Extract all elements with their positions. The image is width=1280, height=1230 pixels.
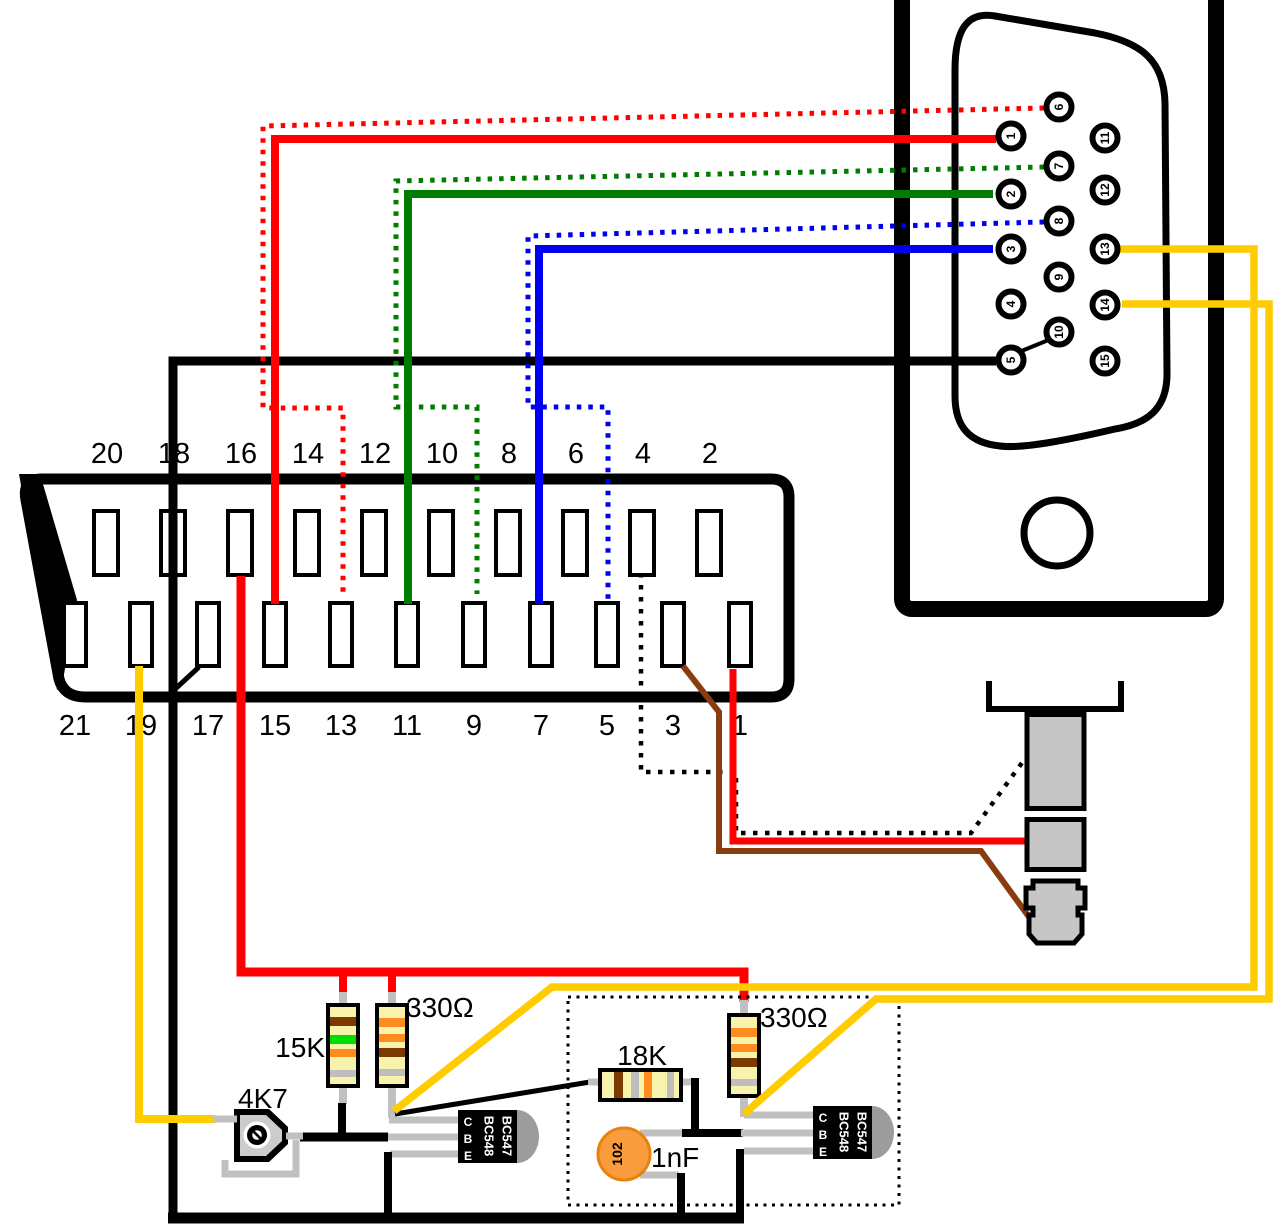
SCART pin 19 <box>130 603 152 666</box>
lead: 15K top <box>339 992 347 1007</box>
lead: 330R-B top <box>740 1000 748 1017</box>
VGA pin 3 <box>999 237 1024 262</box>
svg-text:3: 3 <box>1004 245 1018 252</box>
VGA pin 12 <box>1093 178 1118 203</box>
svg-text:2: 2 <box>1004 190 1018 197</box>
VGA pin 10 <box>1047 320 1072 345</box>
svg-text:20: 20 <box>91 438 123 470</box>
SCART pin 14 <box>295 511 319 575</box>
svg-text:9: 9 <box>466 710 482 742</box>
SCART pin 1 <box>729 603 751 666</box>
wire: red audio, SCART pin 1 to jack ring <box>733 669 1026 841</box>
SCART pin 18 <box>161 511 185 575</box>
svg-text:11: 11 <box>392 710 422 742</box>
svg-text:E: E <box>819 1145 827 1159</box>
wire: blue video, VGA pin3 to SCART pin 7 <box>539 249 993 604</box>
jack body sleeve <box>1027 715 1084 809</box>
wire: red supply, SCART pin 16 to resistor bus <box>241 576 744 1002</box>
VGA screw hole <box>1024 500 1090 566</box>
VGA connector shell <box>902 0 1216 609</box>
SCART pin 11 <box>396 603 418 666</box>
lead: C1 bottom <box>640 1172 679 1179</box>
VGA pin 7 <box>1047 154 1072 179</box>
svg-text:9: 9 <box>1052 273 1066 280</box>
svg-text:102: 102 <box>609 1142 625 1166</box>
SCART pin 6 <box>563 511 587 575</box>
wire: black link to SCART pin 17 <box>173 667 199 691</box>
VGA pin 6 <box>1047 95 1072 120</box>
wire: dotted green ground, VGA pin7 to SCART pin 9 <box>396 167 1044 594</box>
lead: C1 top <box>640 1130 686 1137</box>
wire: dotted black audio ground, SCART pin 4 to jack sleeve <box>641 573 1024 833</box>
svg-text:4: 4 <box>635 438 651 470</box>
svg-text:7: 7 <box>533 710 549 742</box>
svg-text:7: 7 <box>1052 162 1066 169</box>
wire: red stub to 15K <box>339 972 347 994</box>
svg-text:BC548: BC548 <box>837 1112 852 1152</box>
svg-text:BC547: BC547 <box>855 1112 870 1152</box>
svg-text:B: B <box>464 1132 473 1146</box>
wire: composite sync black, VGA pin5 to SCART pin 18 and ground bus <box>173 361 996 1216</box>
svg-text:C: C <box>819 1111 828 1125</box>
wire: Q2 emitter to ground bus <box>736 1149 744 1218</box>
lead: Q2 emitter <box>744 1148 815 1155</box>
svg-text:18K: 18K <box>617 1040 667 1071</box>
VGA pin 1 <box>999 124 1024 149</box>
svg-text:8: 8 <box>501 438 517 470</box>
svg-text:B: B <box>819 1128 828 1142</box>
SCART pin 21 <box>64 603 86 666</box>
wire: black diagonal 330R-A node to 18K <box>395 1082 590 1114</box>
SCART pin 4 <box>630 511 654 575</box>
svg-text:6: 6 <box>1052 103 1066 110</box>
wire: dotted red ground, VGA pin6 to SCART pin 13 <box>263 108 1044 598</box>
svg-text:13: 13 <box>1098 242 1112 256</box>
svg-text:14: 14 <box>292 438 324 470</box>
svg-text:21: 21 <box>59 710 91 742</box>
svg-text:330Ω: 330Ω <box>406 992 474 1023</box>
wire: C1 bottom to ground bus <box>677 1173 685 1218</box>
svg-text:5: 5 <box>599 710 615 742</box>
resistor 330R-B <box>729 1015 759 1096</box>
jack tip <box>1026 881 1085 943</box>
lead: Q1 emitter <box>390 1151 460 1158</box>
svg-text:15: 15 <box>1098 354 1112 368</box>
wire: 15K bottom to base wire <box>338 1103 346 1140</box>
svg-text:15: 15 <box>259 710 291 742</box>
VGA pin 5 <box>999 348 1024 373</box>
transistor Q2 BC547/BC548 <box>813 1106 894 1159</box>
SCART pin 13 <box>330 603 352 666</box>
SCART pin 10 <box>429 511 453 575</box>
svg-text:12: 12 <box>359 438 391 470</box>
resistor 18K <box>600 1070 681 1100</box>
VGA pin 4 <box>999 292 1024 317</box>
SCART pin 16 <box>228 511 252 575</box>
wire: yellow V-sync, VGA pin14 to Q2 collector node <box>744 304 1269 1114</box>
lead: Q1 collector <box>389 1117 460 1124</box>
VGA pin 11 <box>1093 126 1118 151</box>
SCART pin 20 <box>94 511 118 575</box>
svg-text:3: 3 <box>665 710 681 742</box>
SCART pin 15 <box>264 603 286 666</box>
lead: Q2 collector <box>744 1112 815 1119</box>
lead: 18K left <box>588 1079 602 1086</box>
svg-text:2: 2 <box>702 438 718 470</box>
wire: base junction black <box>300 1133 388 1142</box>
svg-text:10: 10 <box>426 438 458 470</box>
svg-text:12: 12 <box>1098 183 1112 197</box>
VGA pin 15 <box>1093 349 1118 374</box>
VGA D-sub face outline <box>955 15 1167 446</box>
svg-text:8: 8 <box>1052 217 1066 224</box>
lead: 15K bottom <box>339 1085 347 1104</box>
VGA pin 14 <box>1093 293 1118 318</box>
wire: red video, VGA pin1 to SCART pin 15 <box>275 139 996 604</box>
svg-text:13: 13 <box>325 710 357 742</box>
svg-text:330Ω: 330Ω <box>760 1002 828 1033</box>
SCART left bevel wedge <box>19 474 77 690</box>
VGA pin 9 <box>1047 265 1072 290</box>
lead: 330R-B bottom <box>740 1094 748 1117</box>
resistor 330R-A <box>377 1005 407 1086</box>
wire: ground bottom bus <box>168 1213 744 1224</box>
dotted enclosure box <box>568 997 899 1205</box>
VGA pin 2 <box>999 182 1024 207</box>
SCART pin 2 <box>697 511 721 575</box>
wire: dotted blue ground, VGA pin8 to SCART pin 5 <box>528 222 1044 600</box>
lead: 4K7 left <box>214 1116 237 1123</box>
capacitor C1 1nF <box>598 1128 650 1180</box>
svg-text:6: 6 <box>568 438 584 470</box>
lead: 330R-A bottom <box>388 1085 396 1118</box>
VGA pin 13 <box>1093 237 1118 262</box>
resistor 15K <box>328 1005 358 1086</box>
lead: 330R-A top <box>388 992 396 1007</box>
SCART pin 3 <box>662 603 684 666</box>
lead: Q2 base <box>741 1130 815 1137</box>
potentiometer 4K7 <box>234 1109 288 1162</box>
svg-text:C: C <box>464 1115 473 1129</box>
svg-text:1nF: 1nF <box>651 1142 699 1173</box>
svg-text:15K: 15K <box>275 1032 325 1063</box>
wire: yellow H-sync, VGA pin13 to Q1 collector node <box>394 249 1254 1111</box>
lead: 4K7 bottom loop <box>225 1140 296 1174</box>
VGA pin 8 <box>1047 209 1072 234</box>
SCART pin 9 <box>463 603 485 666</box>
lead: 18K right <box>679 1079 694 1086</box>
svg-text:17: 17 <box>192 710 224 742</box>
wire: brown audio, SCART pin 3 to jack tip <box>683 666 1029 917</box>
jack cable bracket <box>989 681 1121 709</box>
svg-text:4: 4 <box>1004 300 1018 307</box>
svg-text:BC547: BC547 <box>500 1116 515 1156</box>
svg-text:16: 16 <box>225 438 257 470</box>
jack ring band <box>1027 820 1084 870</box>
SCART pin 12 <box>362 511 386 575</box>
wire: green video, VGA pin2 to SCART pin 11 <box>408 194 993 604</box>
SCART connector body <box>25 479 789 697</box>
lead: Q1 base <box>385 1134 460 1141</box>
svg-text:14: 14 <box>1098 298 1112 312</box>
SCART pin 8 <box>496 511 520 575</box>
SCART pin 5 <box>596 603 618 666</box>
svg-text:4K7: 4K7 <box>238 1083 288 1114</box>
wire: red stub to 330R left <box>388 972 396 994</box>
svg-text:1: 1 <box>1004 132 1018 139</box>
svg-text:E: E <box>464 1149 472 1163</box>
transistor Q1 BC547/BC548 <box>458 1110 539 1163</box>
SCART pin 17 <box>197 603 219 666</box>
svg-text:BC548: BC548 <box>482 1116 497 1156</box>
wire: Q1 emitter to ground bus <box>384 1152 392 1218</box>
SCART pin 7 <box>530 603 552 666</box>
wire: yellow composite video, SCART pin 19 to 4K7 <box>139 666 215 1119</box>
wire: 18K to base node black <box>682 1078 743 1133</box>
svg-text:10: 10 <box>1052 325 1066 339</box>
svg-text:5: 5 <box>1004 356 1018 363</box>
wire: pin5 to pin10 link <box>1019 339 1051 352</box>
svg-text:11: 11 <box>1098 131 1112 144</box>
lead: 4K7 wiper <box>286 1133 303 1140</box>
